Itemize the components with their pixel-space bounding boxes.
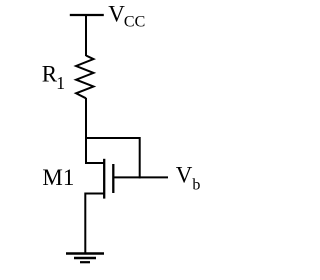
svg-text:VCC: VCC bbox=[108, 1, 145, 30]
svg-text:R1: R1 bbox=[42, 62, 65, 93]
svg-text:M1: M1 bbox=[42, 165, 74, 190]
svg-text:Vb: Vb bbox=[176, 162, 201, 193]
